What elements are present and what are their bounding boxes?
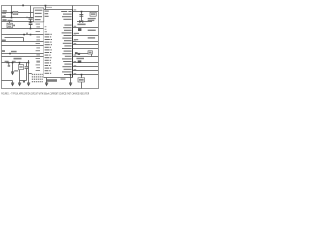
IC U1 right pin labels column — [61, 11, 71, 75]
transistor Q4 blob pair — [75, 52, 78, 54]
Q2 label — [19, 66, 22, 67]
pin label above y35 wire — [74, 33, 79, 34]
transistor Q1 vertical x12.7 — [12, 63, 14, 72]
resistor R2 box lower — [7, 23, 12, 28]
label R5 above wire — [11, 51, 17, 53]
ground GND3 — [27, 82, 30, 85]
IC U1 left pin labels column — [45, 11, 52, 74]
wire row y29 — [2, 28, 44, 30]
wire right row y74.9 — [73, 74, 99, 76]
capacitor C8 plates on x=30.5 lower — [29, 22, 33, 25]
diode D2 row y21 — [77, 21, 92, 23]
wire stub rail to IC right edge top — [72, 6, 74, 10]
wire y80.2 cluster — [20, 80, 27, 82]
label right row — [88, 37, 95, 38]
ground GND6 lower — [11, 82, 14, 85]
terminal label row3 — [2, 19, 6, 21]
node junction dot at (28.5,62.5) — [28, 62, 30, 64]
wire row y37.8 — [5, 37, 24, 39]
node junction dot at (24,34.5) — [23, 34, 25, 36]
diode D6 blob — [8, 65, 10, 67]
switch S1 DIP block matrix — [32, 74, 43, 83]
wire right row y44.8 — [73, 44, 99, 46]
box input block K1 top-left of IC — [34, 8, 44, 22]
U1 left edge (faint) — [43, 10, 45, 78]
capacitor C1 polarity plus — [26, 16, 28, 19]
capacitor C6 vertical x26 — [26, 63, 28, 67]
terminal label row4 — [2, 40, 6, 42]
capacitor C2 vertical x28.9 — [28, 60, 30, 83]
wire stub x8.8 down — [8, 63, 10, 66]
resistor R7 box bottom right — [81, 75, 83, 89]
wire row y45.2 — [2, 45, 44, 47]
wire right row y62.8 — [73, 62, 99, 64]
label on row3 wire — [8, 20, 13, 21]
diode D5 blob — [78, 60, 82, 63]
wire row y56 — [2, 56, 44, 58]
label right row — [88, 30, 96, 31]
capacitor C3 on x81.3 — [79, 13, 83, 16]
node junction dot at (30,21.6) — [30, 21, 32, 23]
diode D1 small box — [23, 81, 25, 83]
fuse F1 dark segment on wire — [6, 62, 9, 63]
wire y73.7 to matrix — [29, 73, 32, 75]
wire right row y67 — [73, 66, 99, 68]
wire input row 1 — [2, 12, 14, 14]
terminal label VIN — [2, 10, 6, 11]
background — [0, 0, 100, 100]
label above y62.5 wire — [5, 61, 9, 62]
wire vertical from top rail x=11.7 — [11, 6, 13, 18]
frame border — [2, 6, 99, 89]
capacitor C5 plus mark — [26, 32, 28, 35]
wire y80 lower left — [2, 80, 13, 82]
ground GND1 upper — [11, 71, 14, 74]
wire right row y70.9 — [73, 70, 99, 72]
U1 right edge — [72, 10, 74, 78]
wire row y63 partial — [2, 62, 29, 64]
R6 label — [91, 13, 95, 15]
R1 value label — [14, 12, 17, 13]
op-amp U1 main IC body top edge — [44, 9, 73, 11]
node junction dot at (19.7,63) — [19, 62, 21, 64]
node junction dot at (30.5,34.5) — [30, 34, 32, 36]
wire right row y27.5 — [73, 27, 99, 29]
node junction dot at (70,74.9) — [70, 74, 72, 76]
wire right row y41.2 — [73, 41, 99, 43]
right pin numbers column — [74, 9, 77, 74]
pin label above y41.2 wire — [74, 39, 78, 40]
label C7 — [14, 70, 18, 71]
inductor L1 vertical x19.7 — [19, 63, 21, 84]
ground GND4 under IC — [46, 78, 48, 84]
wire right row y11 — [73, 11, 99, 13]
node junction dot at (11.7,13) — [11, 12, 13, 14]
R2 label rows — [8, 24, 12, 25]
U1 part number label under IC — [46, 79, 57, 82]
node V+ junction dot on top rail — [22, 5, 24, 7]
transistor Q3 blob — [78, 28, 81, 31]
wire right row y56.2 — [73, 56, 99, 58]
wire C1 bottom stub — [30, 20, 32, 23]
wire right row y48.5 — [73, 48, 99, 50]
diode D3 box — [88, 51, 92, 54]
wire row y41.6 — [2, 41, 44, 43]
svg-text:FIGURE 1 – TYPICAL APPLICATION: FIGURE 1 – TYPICAL APPLICATION CIRCUIT W… — [1, 92, 89, 96]
label under IC right — [61, 78, 66, 79]
wire R2 stubs — [9, 22, 11, 24]
K1 inner text rows — [35, 10, 43, 21]
wire row y53.1 — [2, 53, 44, 55]
node junction dot at (10,53.1) — [9, 53, 11, 55]
node junction dot top rail at IC — [45, 5, 47, 7]
node junction dot at (11.4,17.3) — [11, 17, 13, 19]
wire vertical x81.3 — [81, 12, 83, 22]
R7 label — [79, 79, 84, 81]
label D2 — [77, 24, 85, 26]
MOSFET Q2 box — [19, 65, 24, 70]
wire Q4 to D3 — [80, 53, 88, 55]
label text right rows — [88, 18, 96, 19]
left pin numbers column — [36, 24, 40, 71]
wire stub rail to IC top — [45, 6, 47, 10]
label right row — [76, 58, 84, 59]
ground GND2 — [18, 82, 21, 85]
wire row y34.5 — [2, 34, 44, 36]
wire input row 3 — [2, 21, 34, 23]
node junction dot at (81.3,11) — [81, 11, 83, 13]
node junction dot at (81.3,74.9) — [81, 74, 83, 76]
terminal label row5 — [2, 50, 5, 52]
resistor R6 box far right — [90, 12, 96, 16]
node junction dot at (12.7,63) — [12, 62, 14, 64]
wire vertical x12.7 lower — [12, 81, 14, 84]
U1 bottom edge — [44, 77, 73, 79]
node junction dot at (30.5,28.5) — [30, 28, 32, 30]
R2 side mark — [13, 25, 15, 27]
wire right row y35 — [73, 35, 99, 37]
wire vertical from top rail x=30 — [30, 6, 32, 18]
terminal label GND — [2, 16, 5, 18]
capacitor C1 plates on x=30 — [29, 16, 33, 19]
resistor R1 box — [13, 11, 18, 14]
label above IC top — [46, 7, 52, 8]
wire jog vertical x23 — [23, 38, 25, 42]
capacitor C4 vertical x70 with ground GND5 — [70, 75, 72, 84]
label cluster text — [14, 58, 22, 60]
wire input row 2 — [2, 17, 34, 19]
